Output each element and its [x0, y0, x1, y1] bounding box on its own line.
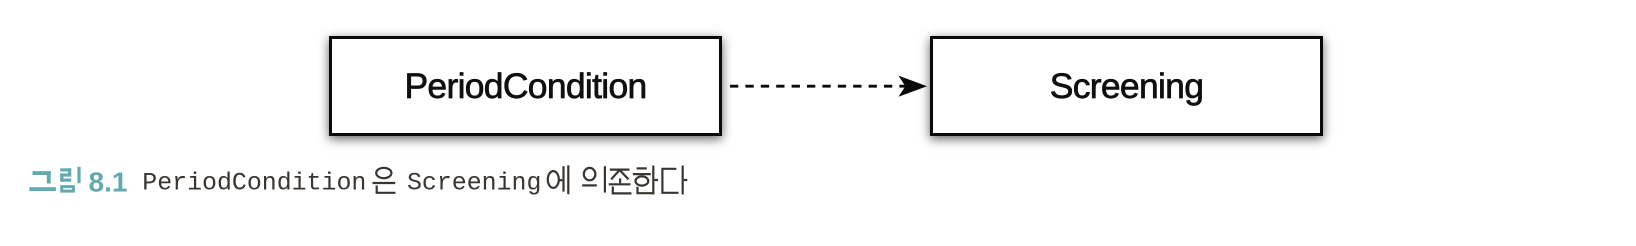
box PeriodCondition — [329, 36, 722, 136]
box Screening — [930, 36, 1323, 136]
그림 (teal, bold) hand-drawn hangul — [29, 167, 80, 193]
arrowhead — [899, 76, 928, 97]
그 — [33, 171, 51, 175]
은 — [373, 168, 396, 193]
한 — [633, 166, 658, 195]
다 — [662, 166, 687, 195]
dashed line — [730, 85, 907, 88]
svg-text:Screening: Screening — [407, 170, 541, 198]
svg-text:PeriodCondition: PeriodCondition — [142, 170, 366, 198]
svg-text:8.1: 8.1 — [89, 167, 128, 198]
존 — [609, 170, 632, 194]
에 — [548, 165, 569, 194]
의 — [582, 166, 605, 192]
림 — [60, 168, 71, 171]
